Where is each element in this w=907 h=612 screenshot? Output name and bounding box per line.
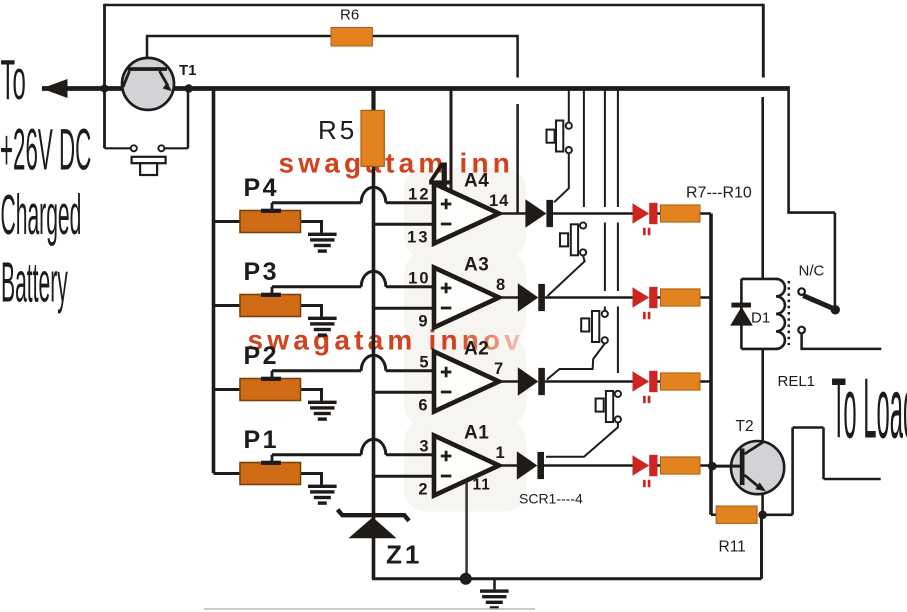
svg-text:10: 10: [408, 270, 430, 288]
svg-text:REL1: REL1: [778, 373, 816, 390]
svg-text:9: 9: [418, 312, 429, 330]
svg-text:P3: P3: [244, 258, 280, 286]
svg-text:11: 11: [473, 477, 491, 494]
svg-text:5: 5: [419, 354, 430, 372]
svg-text:3: 3: [419, 438, 430, 456]
svg-text:P1: P1: [244, 426, 280, 454]
svg-text:N/C: N/C: [799, 263, 825, 280]
svg-text:R6: R6: [340, 7, 359, 24]
svg-text:A2: A2: [464, 339, 489, 360]
svg-text:To Load: To Load: [832, 363, 907, 457]
svg-text:T2: T2: [736, 418, 754, 435]
svg-text:SCR1----4: SCR1----4: [519, 491, 583, 507]
svg-text:13: 13: [407, 228, 429, 246]
svg-text:14: 14: [489, 192, 509, 210]
svg-text:D1: D1: [751, 310, 770, 327]
svg-text:Z1: Z1: [386, 540, 422, 570]
svg-text:6: 6: [418, 396, 429, 414]
svg-text:4: 4: [429, 155, 452, 199]
svg-text:Charged: Charged: [1, 184, 82, 248]
svg-text:8: 8: [496, 276, 506, 294]
svg-text:+26V DC: +26V DC: [0, 118, 91, 183]
svg-text:A4: A4: [464, 171, 489, 192]
svg-text:Battery: Battery: [1, 251, 68, 315]
svg-text:R7---R10: R7---R10: [686, 185, 752, 202]
svg-text:R11: R11: [719, 539, 746, 556]
svg-text:R5: R5: [318, 115, 357, 145]
svg-text:1: 1: [496, 444, 506, 462]
svg-text:P4: P4: [244, 174, 280, 202]
svg-text:A1: A1: [464, 423, 489, 444]
svg-text:To: To: [1, 48, 26, 112]
svg-text:7: 7: [494, 360, 504, 378]
svg-text:P2: P2: [244, 342, 280, 370]
svg-text:T1: T1: [179, 62, 197, 79]
svg-text:12: 12: [408, 186, 430, 204]
svg-text:A3: A3: [464, 255, 489, 276]
svg-text:2: 2: [418, 480, 429, 498]
